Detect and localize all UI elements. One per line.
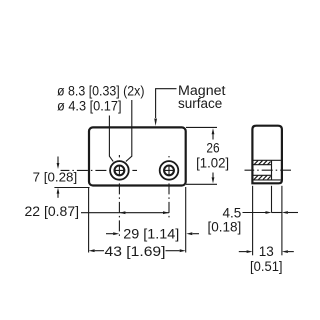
centerline horizontal left hole xyxy=(61,169,137,171)
side view bore bottom line xyxy=(253,174,271,176)
side view horizontal centerline xyxy=(245,169,292,171)
side view counterbore bottom line xyxy=(253,179,281,181)
svg-text:ø 4.3 [0.17]: ø 4.3 [0.17] xyxy=(57,99,122,114)
centerline horizontal right hole xyxy=(157,169,182,171)
extension line counterbore step xyxy=(271,186,273,213)
extension line body bottom edge right xyxy=(186,183,217,185)
svg-text:29 [1.14]: 29 [1.14] xyxy=(123,227,179,242)
hole right bore circle xyxy=(164,166,174,176)
svg-text:13: 13 xyxy=(259,244,274,259)
side view bore top line xyxy=(253,164,271,166)
extension line side left edge xyxy=(252,186,254,256)
svg-text:4.5: 4.5 xyxy=(223,205,242,220)
hole left bore circle xyxy=(115,166,125,176)
front view body outline xyxy=(89,127,186,185)
svg-text:[0.51]: [0.51] xyxy=(250,259,283,274)
side view counterbore top line xyxy=(253,159,281,161)
svg-text:22 [0.87]: 22 [0.87] xyxy=(25,204,80,219)
extension line side right edge xyxy=(281,186,283,256)
svg-text:43 [1.69]: 43 [1.69] xyxy=(105,244,166,259)
svg-text:26: 26 xyxy=(206,140,219,155)
hatching upper strip xyxy=(254,161,271,165)
extension line body left edge xyxy=(88,188,90,253)
hatching lower strip xyxy=(254,175,271,179)
svg-text:surface: surface xyxy=(178,96,222,111)
extension line bottom-left of body xyxy=(54,187,89,189)
svg-text:ø 8.3 [0.33] (2x): ø 8.3 [0.33] (2x) xyxy=(57,83,145,98)
hole right counterbore circle xyxy=(160,161,179,180)
centerline vertical right hole xyxy=(168,156,170,218)
hole left counterbore circle xyxy=(110,161,129,180)
leader magnet surface xyxy=(156,89,177,118)
side view counterbore step xyxy=(271,160,273,180)
svg-text:[0.18]: [0.18] xyxy=(208,220,242,235)
svg-text:[1.02]: [1.02] xyxy=(196,155,229,170)
leader dia 4.3 xyxy=(109,116,113,162)
side view body outline xyxy=(252,126,282,184)
centerline vertical left hole xyxy=(118,155,120,238)
extension line body top edge right xyxy=(186,126,217,128)
extension line body right edge xyxy=(185,187,187,253)
leader dia 8.3 xyxy=(126,100,132,161)
svg-text:7 [0.28]: 7 [0.28] xyxy=(33,170,77,185)
